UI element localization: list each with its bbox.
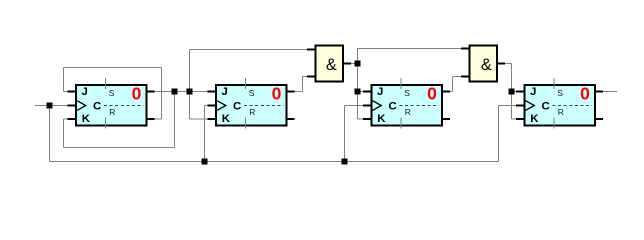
- svg-text:S: S: [249, 88, 255, 98]
- svg-text:K: K: [82, 113, 91, 125]
- svg-text:R: R: [558, 107, 564, 117]
- svg-text:S: S: [404, 88, 410, 98]
- svg-text:J: J: [377, 86, 383, 98]
- svg-text:0: 0: [132, 84, 142, 104]
- svg-text:0: 0: [427, 84, 437, 104]
- svg-text:R: R: [249, 107, 255, 117]
- svg-text:&: &: [481, 56, 492, 74]
- svg-text:R: R: [405, 107, 411, 117]
- svg-text:S: S: [557, 88, 563, 98]
- svg-text:K: K: [377, 113, 386, 125]
- svg-text:&: &: [326, 56, 337, 74]
- svg-text:0: 0: [272, 84, 282, 104]
- svg-text:K: K: [530, 113, 539, 125]
- svg-text:S: S: [109, 88, 115, 98]
- svg-text:C: C: [233, 100, 241, 112]
- svg-text:0: 0: [580, 84, 590, 104]
- svg-text:C: C: [542, 100, 550, 112]
- svg-text:K: K: [222, 113, 231, 125]
- svg-text:C: C: [93, 100, 101, 112]
- svg-text:J: J: [222, 86, 228, 98]
- svg-text:J: J: [82, 86, 88, 98]
- svg-text:C: C: [389, 100, 397, 112]
- svg-text:R: R: [109, 107, 115, 117]
- svg-text:J: J: [530, 86, 536, 98]
